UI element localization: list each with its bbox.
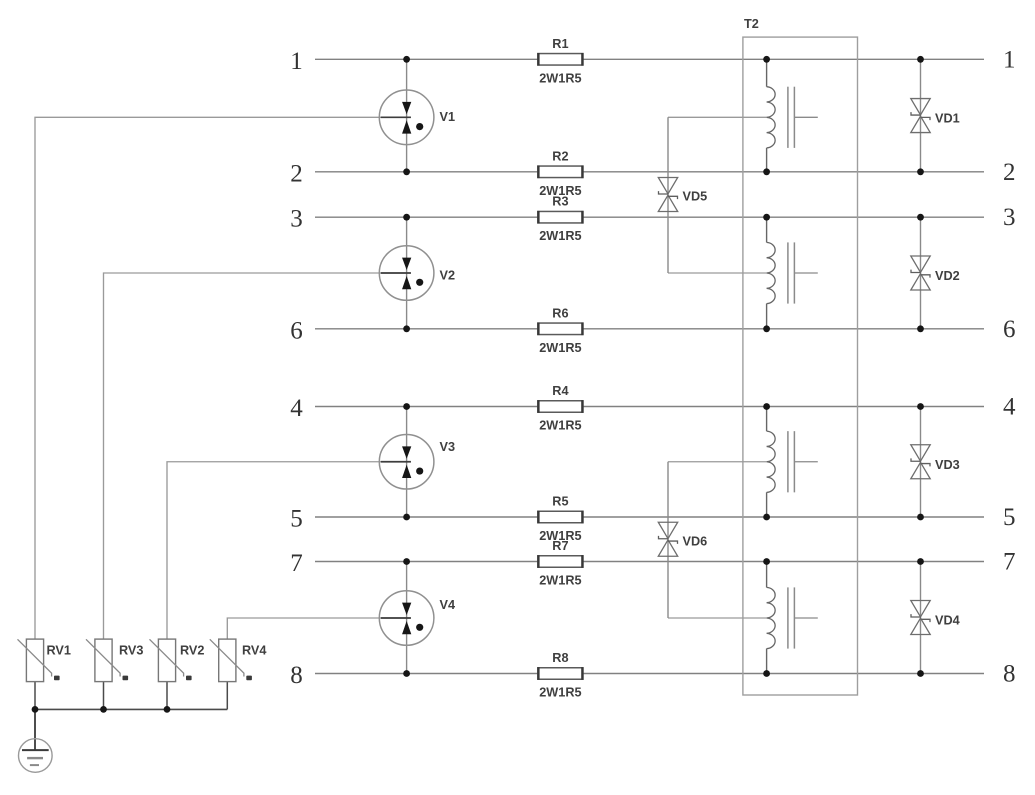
svg-text:V4: V4 xyxy=(440,598,456,612)
svg-text:2W1R5: 2W1R5 xyxy=(539,686,581,700)
svg-text:VD3: VD3 xyxy=(935,458,960,472)
svg-text:4: 4 xyxy=(1003,394,1016,421)
svg-text:2W1R5: 2W1R5 xyxy=(539,341,581,355)
svg-text:V1: V1 xyxy=(440,110,456,124)
svg-text:2: 2 xyxy=(290,160,303,187)
svg-text:R2: R2 xyxy=(552,149,568,163)
svg-text:8: 8 xyxy=(1003,661,1016,688)
svg-text:2: 2 xyxy=(1003,159,1016,186)
svg-text:VD6: VD6 xyxy=(683,534,708,548)
svg-text:R1: R1 xyxy=(552,37,568,51)
svg-text:6: 6 xyxy=(290,317,303,344)
svg-text:R8: R8 xyxy=(552,651,568,665)
svg-text:2W1R5: 2W1R5 xyxy=(539,574,581,588)
svg-text:VD1: VD1 xyxy=(935,112,960,126)
svg-text:RV4: RV4 xyxy=(242,643,266,657)
svg-text:T2: T2 xyxy=(744,17,759,31)
svg-text:7: 7 xyxy=(290,550,303,577)
svg-text:RV1: RV1 xyxy=(47,643,71,657)
svg-text:3: 3 xyxy=(1003,204,1016,231)
svg-text:4: 4 xyxy=(290,395,303,422)
svg-text:1: 1 xyxy=(1003,46,1016,73)
svg-text:2W1R5: 2W1R5 xyxy=(539,71,581,85)
svg-text:R5: R5 xyxy=(552,495,568,509)
svg-text:V2: V2 xyxy=(440,268,456,282)
svg-text:2W1R5: 2W1R5 xyxy=(539,419,581,433)
svg-text:5: 5 xyxy=(1003,504,1016,531)
svg-text:3: 3 xyxy=(290,206,303,233)
svg-text:5: 5 xyxy=(290,506,303,533)
svg-text:V3: V3 xyxy=(440,440,456,454)
svg-text:R3: R3 xyxy=(552,195,568,209)
svg-text:RV2: RV2 xyxy=(180,643,204,657)
svg-text:VD5: VD5 xyxy=(683,190,708,204)
svg-text:RV3: RV3 xyxy=(119,643,143,657)
svg-text:R6: R6 xyxy=(552,306,568,320)
svg-text:6: 6 xyxy=(1003,316,1016,343)
svg-text:2W1R5: 2W1R5 xyxy=(539,229,581,243)
svg-text:R4: R4 xyxy=(552,384,568,398)
svg-text:R7: R7 xyxy=(552,539,568,553)
svg-text:VD2: VD2 xyxy=(935,269,960,283)
svg-text:7: 7 xyxy=(1003,549,1016,576)
svg-text:VD4: VD4 xyxy=(935,614,960,628)
svg-text:8: 8 xyxy=(290,662,303,689)
svg-text:1: 1 xyxy=(290,48,303,75)
